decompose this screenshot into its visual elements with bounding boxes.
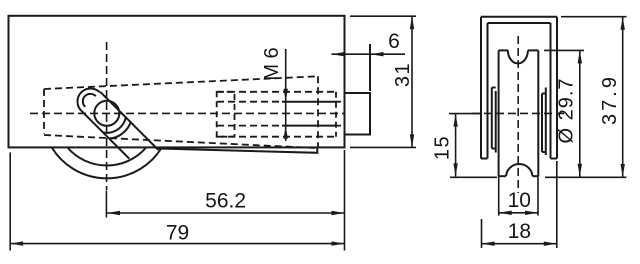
arm pivot cap outer arc: [77, 88, 99, 110]
right bushing bottom tick: [542, 151, 546, 153]
arrowhead 37.9 top: [621, 17, 625, 30]
arrowhead 18 left: [482, 242, 495, 246]
arrowhead 10 right: [525, 211, 538, 215]
roller vertical centerline: [106, 42, 108, 190]
left bushing inner line: [495, 91, 497, 153]
wheel top groove arc: [508, 50, 528, 63]
roller tire inner arc: [68, 148, 146, 165]
right view: right plate outer edge: [556, 17, 558, 159]
arrowhead 6 right: [371, 52, 384, 56]
right bushing outer line: [545, 88, 547, 156]
left bushing bottom tick: [492, 148, 496, 150]
wheel bottom right edge: [533, 175, 539, 177]
svg-text:Ø 29.7: Ø 29.7: [555, 77, 577, 143]
arrowhead 6 left: [332, 52, 345, 56]
svg-text:6: 6: [388, 30, 400, 53]
dashed arm outline left edge: [43, 89, 45, 134]
arrowhead 79 left: [10, 241, 23, 245]
arrowhead 18 right: [544, 242, 557, 246]
svg-text:M 6: M 6: [261, 47, 283, 80]
dashed slot top edge: [217, 91, 336, 93]
svg-text:10: 10: [508, 189, 531, 212]
left bushing outer line: [491, 88, 493, 149]
arm pivot cap inner arc: [83, 94, 96, 107]
boss on right side of housing: [345, 93, 371, 135]
roller hub arc 1: [103, 117, 126, 132]
15 dimension line: [455, 114, 457, 177]
dimension line 6: [332, 53, 406, 55]
screw M6 bottom line hidden part: [217, 125, 282, 127]
wire: bottom extension line for 31 dim: [350, 146, 416, 148]
wheel left flange outer edge: [498, 50, 500, 176]
screw M6 top line visible part: [282, 101, 336, 103]
right view: left plate inner edge: [487, 23, 489, 159]
dashed arm outline top edge (raised position): [44, 76, 318, 89]
dia 29.7 top leader: [544, 49, 584, 51]
roller tire outer arc: [52, 148, 161, 178]
79 dimension line: [10, 243, 344, 245]
10 left extension line: [498, 176, 500, 215]
wheel bottom left edge: [499, 175, 506, 177]
dashed nut pocket rectangle: [217, 92, 235, 137]
arrowhead 29.7 bottom: [578, 164, 582, 177]
wire: top extension line for 31 dim: [350, 15, 416, 17]
svg-text:37.9: 37.9: [599, 74, 621, 125]
dashed arm outline bottom edge: [44, 135, 317, 148]
left bushing top tick: [492, 87, 496, 89]
svg-text:56.2: 56.2: [205, 189, 246, 212]
svg-text:18: 18: [508, 220, 531, 243]
18 left extension line: [481, 219, 483, 248]
18 dimension line: [482, 243, 557, 245]
arrowhead 37.9 bottom: [621, 164, 625, 177]
right view: inner top edge: [488, 22, 551, 24]
15 top extension line: [449, 113, 481, 115]
M6 leader line: [285, 49, 287, 141]
arrowhead 79 right: [332, 241, 345, 245]
arrowhead 56.2 left: [107, 211, 120, 215]
svg-text:31: 31: [392, 62, 414, 87]
arm lower edge: [81, 111, 129, 159]
dia 29.7 dimension line: [579, 50, 581, 176]
roller horizontal centerline / screw axis: [30, 112, 344, 114]
arrowhead M6 down: [284, 89, 288, 102]
svg-text:15: 15: [431, 135, 453, 160]
right view: right plate bottom: [551, 158, 558, 160]
arm upper edge: [100, 92, 158, 150]
wheel bottom groove arc: [506, 164, 533, 176]
dashed slot bottom edge: [217, 136, 336, 138]
arrowhead 15 bottom: [453, 163, 457, 176]
right bushing top tick: [542, 93, 546, 95]
housing outline (left view): [9, 16, 345, 148]
dashed slot right edge: [335, 92, 337, 137]
right view horizontal centerline: [472, 112, 566, 114]
wheel top right flange edge: [528, 49, 538, 51]
wire: extension line for 6 dim: [369, 44, 371, 91]
arrowhead M6 up: [284, 126, 288, 139]
arrowhead 31 top: [410, 16, 414, 29]
56.2 extension line at roller center: [105, 191, 107, 218]
roller hub arc 2: [109, 122, 130, 138]
screw M6 bottom line visible part: [282, 125, 336, 127]
arm bottom edge visible below housing: [158, 147, 317, 152]
screw M6 bottom line right hidden bit: [336, 125, 345, 127]
wheel right flange outer edge: [537, 50, 539, 176]
arrowhead 31 bottom: [410, 134, 414, 147]
79 left extension line: [9, 152, 11, 250]
wheel top left flange edge: [499, 49, 508, 51]
right view: left plate bottom: [481, 158, 488, 160]
right view: right plate inner edge: [550, 23, 552, 159]
dashed arm outline right edge: [317, 76, 319, 147]
right bushing inner line: [541, 94, 543, 153]
right view: top outer edge: [481, 16, 557, 18]
10 right extension line: [537, 176, 539, 215]
15 bottom extension line: [450, 176, 497, 178]
37.9 dimension line: [622, 17, 624, 177]
18 right extension line: [556, 161, 558, 248]
56.2 dimension line: [107, 212, 345, 214]
10 dimension line: [499, 212, 538, 214]
arrowhead 10 left: [499, 211, 512, 215]
svg-text:79: 79: [166, 221, 189, 244]
screw M6 top line hidden part: [217, 101, 282, 103]
arrowhead 15 top: [453, 114, 457, 127]
right view: left plate outer edge: [480, 17, 482, 159]
37.9 top extension line: [561, 16, 627, 18]
screw M6 top line right hidden bit: [336, 101, 345, 103]
right view vertical centerline: [517, 36, 519, 193]
37.9 bottom extension line: [545, 176, 627, 178]
arrowhead 29.7 top: [578, 50, 582, 63]
dimension line 31: [411, 16, 413, 147]
arrowhead 56.2 right: [332, 211, 345, 215]
56.2 right extension line: [344, 150, 346, 251]
roller bore circle: [94, 101, 119, 126]
